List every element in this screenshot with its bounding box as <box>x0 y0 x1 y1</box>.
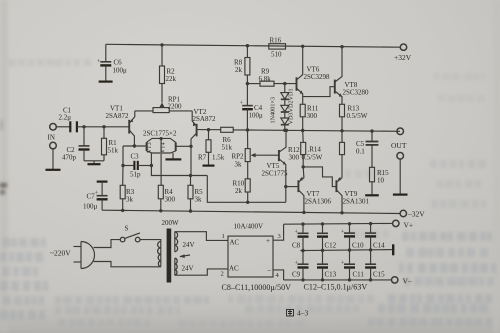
capacitor C15 <box>365 250 376 280</box>
resistor R10 <box>245 162 250 203</box>
ground OUT <box>393 159 408 195</box>
wire: V- rail <box>284 279 392 281</box>
svg-text:22k: 22k <box>166 75 177 83</box>
capacitor C10 <box>344 224 355 250</box>
svg-text:2SC1775×2: 2SC1775×2 <box>143 130 177 138</box>
wire: C1 to VT1 base <box>77 126 129 128</box>
wire: emitter line VT1-RP1-VT2 <box>135 110 153 112</box>
potentiometer RP1 <box>153 103 169 113</box>
svg-text:R7: R7 <box>198 154 207 162</box>
resistor R6 <box>221 127 248 132</box>
node R10 bottom <box>246 201 249 204</box>
svg-text:C8–C11,10000μ/50V: C8–C11,10000μ/50V <box>222 283 292 292</box>
node V- C15 <box>369 278 372 281</box>
svg-text:2SA872: 2SA872 <box>193 115 216 123</box>
dual transistor VT3/VT4 2SC1775x2 <box>147 137 182 185</box>
node out-R11/R12 <box>301 129 304 132</box>
svg-text:2SA872: 2SA872 <box>106 112 129 120</box>
svg-text:100μ: 100μ <box>249 112 264 120</box>
ground IN <box>46 149 61 170</box>
transistor VT1 (PNP 2SA872) <box>129 111 135 146</box>
svg-text:300: 300 <box>165 196 176 204</box>
node VT2 collector <box>189 145 192 148</box>
svg-text:~220V: ~220V <box>50 249 71 258</box>
svg-text:2SC3298: 2SC3298 <box>304 73 331 81</box>
node rail-VT9 collector <box>340 211 343 214</box>
svg-text:V+: V+ <box>404 221 414 230</box>
resistor R5 <box>188 176 193 211</box>
svg-text:C9: C9 <box>292 271 301 279</box>
switch S <box>120 233 161 242</box>
svg-text:0.1: 0.1 <box>356 148 365 156</box>
node C3 left / R3 top <box>121 164 124 167</box>
capacitor C9 <box>298 251 309 280</box>
resistor R11 <box>300 97 305 131</box>
node R8/R9/C4 <box>246 82 249 85</box>
node V- C11 <box>348 278 351 281</box>
svg-text:300: 300 <box>289 154 300 162</box>
ground C2/R1 <box>84 161 104 164</box>
potentiometer RP2 <box>245 130 279 162</box>
terminal OUT lower <box>397 153 404 160</box>
node R7 top <box>207 128 210 131</box>
terminal V- <box>392 277 398 283</box>
svg-text:100μ: 100μ <box>113 67 128 75</box>
node V+ C14 <box>369 222 372 225</box>
node rail-VT6 collector <box>301 45 304 48</box>
diodes VD1 VD2 VD3 <box>281 84 289 131</box>
svg-text:RP2: RP2 <box>232 153 245 161</box>
resistor R3 <box>120 166 125 211</box>
svg-text:10: 10 <box>377 177 385 185</box>
svg-text:1.5k: 1.5k <box>212 154 225 162</box>
svg-text:3k: 3k <box>126 196 134 204</box>
capacitor C12 <box>317 224 328 250</box>
capacitor C14 <box>365 224 376 250</box>
node rail-R8 <box>246 44 249 47</box>
svg-text:100μ: 100μ <box>83 203 98 211</box>
wire: input <box>56 126 70 128</box>
node R5 top tee <box>189 174 192 177</box>
resistor R9 <box>247 81 296 86</box>
svg-text:2SC1775: 2SC1775 <box>262 170 289 178</box>
node out-VT5 collector <box>285 129 288 132</box>
svg-text:C6: C6 <box>114 59 123 67</box>
resistor R13 <box>340 104 345 131</box>
transistor VT6 (NPN 2SC3298) <box>297 46 303 96</box>
wire: VT2 base / feedback line <box>197 129 221 131</box>
svg-text:R16: R16 <box>270 37 282 45</box>
wire: V+ rail <box>284 222 393 225</box>
svg-text:3k: 3k <box>195 196 203 204</box>
wire: line C3right-R5-corner <box>151 166 207 176</box>
terminal IN lower <box>50 142 57 149</box>
transformer T (200W) <box>158 229 228 283</box>
transistor VT7 (PNP 2SA1306) <box>298 167 304 213</box>
wire: VT4 collector to VT2 collector <box>176 145 191 147</box>
node rail-VT7 collector <box>302 211 305 214</box>
svg-text:2.2μ: 2.2μ <box>59 114 72 122</box>
node R12 bottom <box>302 165 305 168</box>
capacitor C4 <box>242 84 253 130</box>
capacitor C11 <box>344 250 355 280</box>
svg-text:VT4: VT4 <box>161 142 167 153</box>
svg-text:470p: 470p <box>62 154 77 162</box>
wire VT7 base <box>286 186 299 188</box>
svg-text:6.8k: 6.8k <box>259 75 272 83</box>
svg-text:51k: 51k <box>108 147 119 155</box>
resistor R4 <box>158 185 163 210</box>
node R1 top <box>102 125 105 128</box>
capacitor C1 <box>70 121 77 132</box>
svg-text:–32V: –32V <box>407 210 425 219</box>
svg-text:0.5/5W: 0.5/5W <box>347 112 368 120</box>
terminal IN upper <box>50 124 57 131</box>
wire: middle 0V line <box>300 250 393 251</box>
svg-text:C8: C8 <box>292 242 301 250</box>
resistor R15 <box>365 167 379 195</box>
node diode top <box>283 82 286 85</box>
svg-text:C3: C3 <box>131 153 140 161</box>
node VT7 base on VT5 emitter <box>284 185 287 188</box>
svg-text:51k: 51k <box>222 144 233 152</box>
svg-text:2SA1306: 2SA1306 <box>305 198 332 206</box>
node rail-R3 <box>121 209 124 212</box>
transistor VT9 (PNP 2SA1301) <box>336 177 342 213</box>
AC plug <box>74 240 161 269</box>
transistor VT2 (PNP 2SA872) <box>191 111 197 146</box>
node VT1 collector <box>133 144 136 147</box>
rectifier bridge 10A/400V <box>228 224 284 280</box>
wire: bottom -32V rail <box>102 210 400 213</box>
svg-text:3: 3 <box>278 233 281 240</box>
svg-text:C12–C15,0.1μ/63V: C12–C15,0.1μ/63V <box>304 282 368 291</box>
svg-text:C11: C11 <box>353 271 365 279</box>
ground C7 <box>97 181 108 183</box>
capacitor C7 <box>97 182 108 211</box>
capacitor C2 <box>79 127 90 161</box>
svg-text:C10: C10 <box>352 242 364 250</box>
wire: VT6 emitter to VT8 base <box>303 87 335 97</box>
capacitor C6 <box>99 44 113 81</box>
node out-R13/R14 <box>340 129 343 132</box>
terminal OUT upper <box>397 128 404 135</box>
svg-text:24V: 24V <box>182 265 194 273</box>
svg-text:S: S <box>125 225 129 233</box>
node 0V C12/C13 <box>321 249 324 252</box>
resistor R8 <box>245 46 250 84</box>
svg-text:4–3: 4–3 <box>297 309 309 318</box>
resistor R12 <box>301 131 306 167</box>
node rail-R5 <box>189 209 192 212</box>
svg-text:OUT: OUT <box>391 141 407 150</box>
svg-text:1: 1 <box>222 233 225 240</box>
node out-diodes <box>283 129 286 132</box>
svg-text:1N4001×3: 1N4001×3 <box>270 97 277 124</box>
svg-text:300: 300 <box>307 112 318 120</box>
wire: VT1 collector tee <box>123 145 146 147</box>
svg-text:2200: 2200 <box>168 103 183 111</box>
svg-text:2k: 2k <box>235 187 243 195</box>
svg-text:IN: IN <box>48 134 55 142</box>
node V- C13 <box>321 278 324 281</box>
terminal +32V <box>400 44 406 50</box>
node C3 right <box>150 164 153 167</box>
svg-text:V–: V– <box>403 277 412 286</box>
node rail-R4 <box>159 209 162 212</box>
dark page-edge marks left <box>0 120 7 195</box>
svg-text:51p: 51p <box>130 171 141 179</box>
node V+ C10 <box>348 222 351 225</box>
resistor R14 <box>340 131 345 178</box>
resistor R2 <box>160 45 165 103</box>
svg-text:510: 510 <box>271 51 282 59</box>
svg-text:3k: 3k <box>235 161 243 169</box>
caption fig 4-3 <box>287 310 294 317</box>
capacitor C3 <box>123 161 151 170</box>
svg-text:+: + <box>266 237 270 245</box>
svg-text:VD3VD2VD1: VD3VD2VD1 <box>288 88 295 124</box>
terminal V+ <box>393 220 399 226</box>
svg-text:2: 2 <box>221 271 224 278</box>
svg-text:C13: C13 <box>325 271 337 279</box>
svg-text:VT3: VT3 <box>147 142 153 153</box>
resistor R7 <box>203 130 215 166</box>
svg-text:2SC3280: 2SC3280 <box>343 89 370 97</box>
svg-text:+32V: +32V <box>394 53 412 62</box>
node 0V C8/C9 <box>301 249 304 252</box>
svg-text:0.5/5W: 0.5/5W <box>302 154 323 162</box>
node rail-VT8 collector <box>340 45 343 48</box>
svg-text:10A/400V: 10A/400V <box>234 223 264 231</box>
ghost show-through text (back of page) <box>0 59 496 327</box>
svg-text:2SA1301: 2SA1301 <box>343 198 370 206</box>
svg-text:AC: AC <box>229 265 239 273</box>
svg-text:2k: 2k <box>235 66 243 74</box>
wire: +32V top rail <box>106 44 400 47</box>
svg-text:–: – <box>267 266 272 274</box>
node V+ C8 <box>301 222 304 225</box>
node V- C9 <box>301 278 304 281</box>
node rail-R2 <box>160 43 163 46</box>
svg-text:24V: 24V <box>183 241 195 249</box>
node V+ C12 <box>321 222 324 225</box>
capacitor C8 <box>298 224 309 251</box>
wire: staircase R12 to VT9 base <box>303 167 336 187</box>
capacitor C5 <box>366 131 379 167</box>
node C1-C2 <box>82 125 85 128</box>
node out-C4/RP2 <box>246 128 249 131</box>
svg-text:AC: AC <box>230 239 240 247</box>
node 0V C10/C11 <box>348 248 351 251</box>
transistor VT8 (NPN 2SC3280) <box>335 47 342 105</box>
transistor VT5 (NPN 2SC1775) <box>279 130 286 202</box>
svg-text:C14: C14 <box>373 242 385 250</box>
chassis bar middle line <box>392 244 394 255</box>
svg-text:200W: 200W <box>162 219 180 227</box>
wire: VT2 collector drop to R5 <box>190 146 193 175</box>
node 0V C14/C15 <box>369 248 372 251</box>
resistor R1 <box>102 127 107 161</box>
resistor R16 <box>269 44 286 49</box>
capacitor C13 <box>317 250 328 280</box>
svg-text:.R14: .R14 <box>308 146 322 154</box>
svg-text:C12: C12 <box>325 242 337 250</box>
node out-C5 <box>370 129 373 132</box>
svg-text:C15: C15 <box>373 271 385 279</box>
wire: output line <box>248 130 401 131</box>
terminal -32V <box>400 210 406 216</box>
